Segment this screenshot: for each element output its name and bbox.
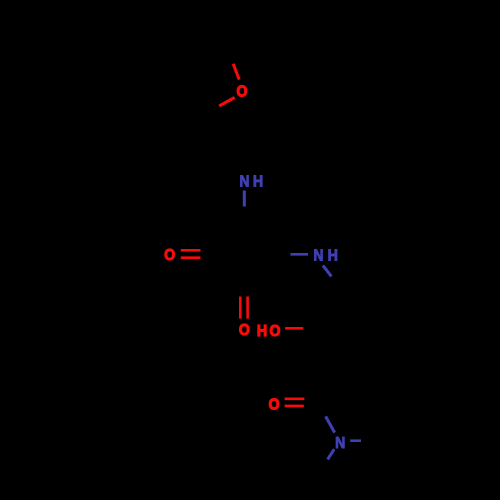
svg-text:N: N [314,247,324,265]
svg-text:O: O [269,396,280,414]
double bond C=O4 (red halves) [285,397,305,400]
svg-text:H: H [253,173,263,191]
svg-text:N: N [335,434,345,452]
double bond C=O2 (red halves) [181,249,201,252]
bond C5-O1 (red half, upper stub) [233,64,239,80]
bond N-CH2 (blue half, down-right stub) [323,265,332,276]
bond C(=O)-N (blue half, up-left stub) [326,416,335,432]
bond N-C (blue half, downward stub) [243,191,246,207]
bond C-N (blue half, left stub) [290,253,308,256]
svg-text:H: H [257,322,267,340]
bond N-CH3 (blue half, down-left stub) [328,449,335,459]
svg-text:O: O [270,322,281,340]
svg-text:O: O [239,321,250,339]
svg-text:N: N [239,173,249,191]
svg-text:O: O [164,246,175,264]
double bond C=O3 (red halves, vertical) [239,297,242,319]
bond N-CH3 (blue half, right stub) [350,439,361,442]
bond C2-O1 (red half, lower-left stub) [219,98,234,106]
svg-text:H: H [328,247,338,265]
svg-text:O: O [237,83,248,101]
bond O-C (red half, right stub) [285,327,303,330]
